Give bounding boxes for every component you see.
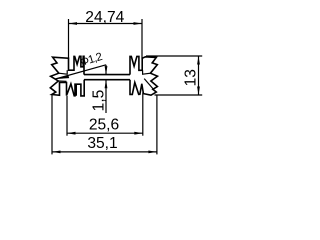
- svg-text:13: 13: [183, 69, 200, 86]
- svg-text:24,74: 24,74: [85, 9, 124, 26]
- svg-text:25,6: 25,6: [89, 117, 119, 134]
- svg-text:35,1: 35,1: [87, 135, 117, 152]
- svg-text:1,5: 1,5: [91, 89, 108, 111]
